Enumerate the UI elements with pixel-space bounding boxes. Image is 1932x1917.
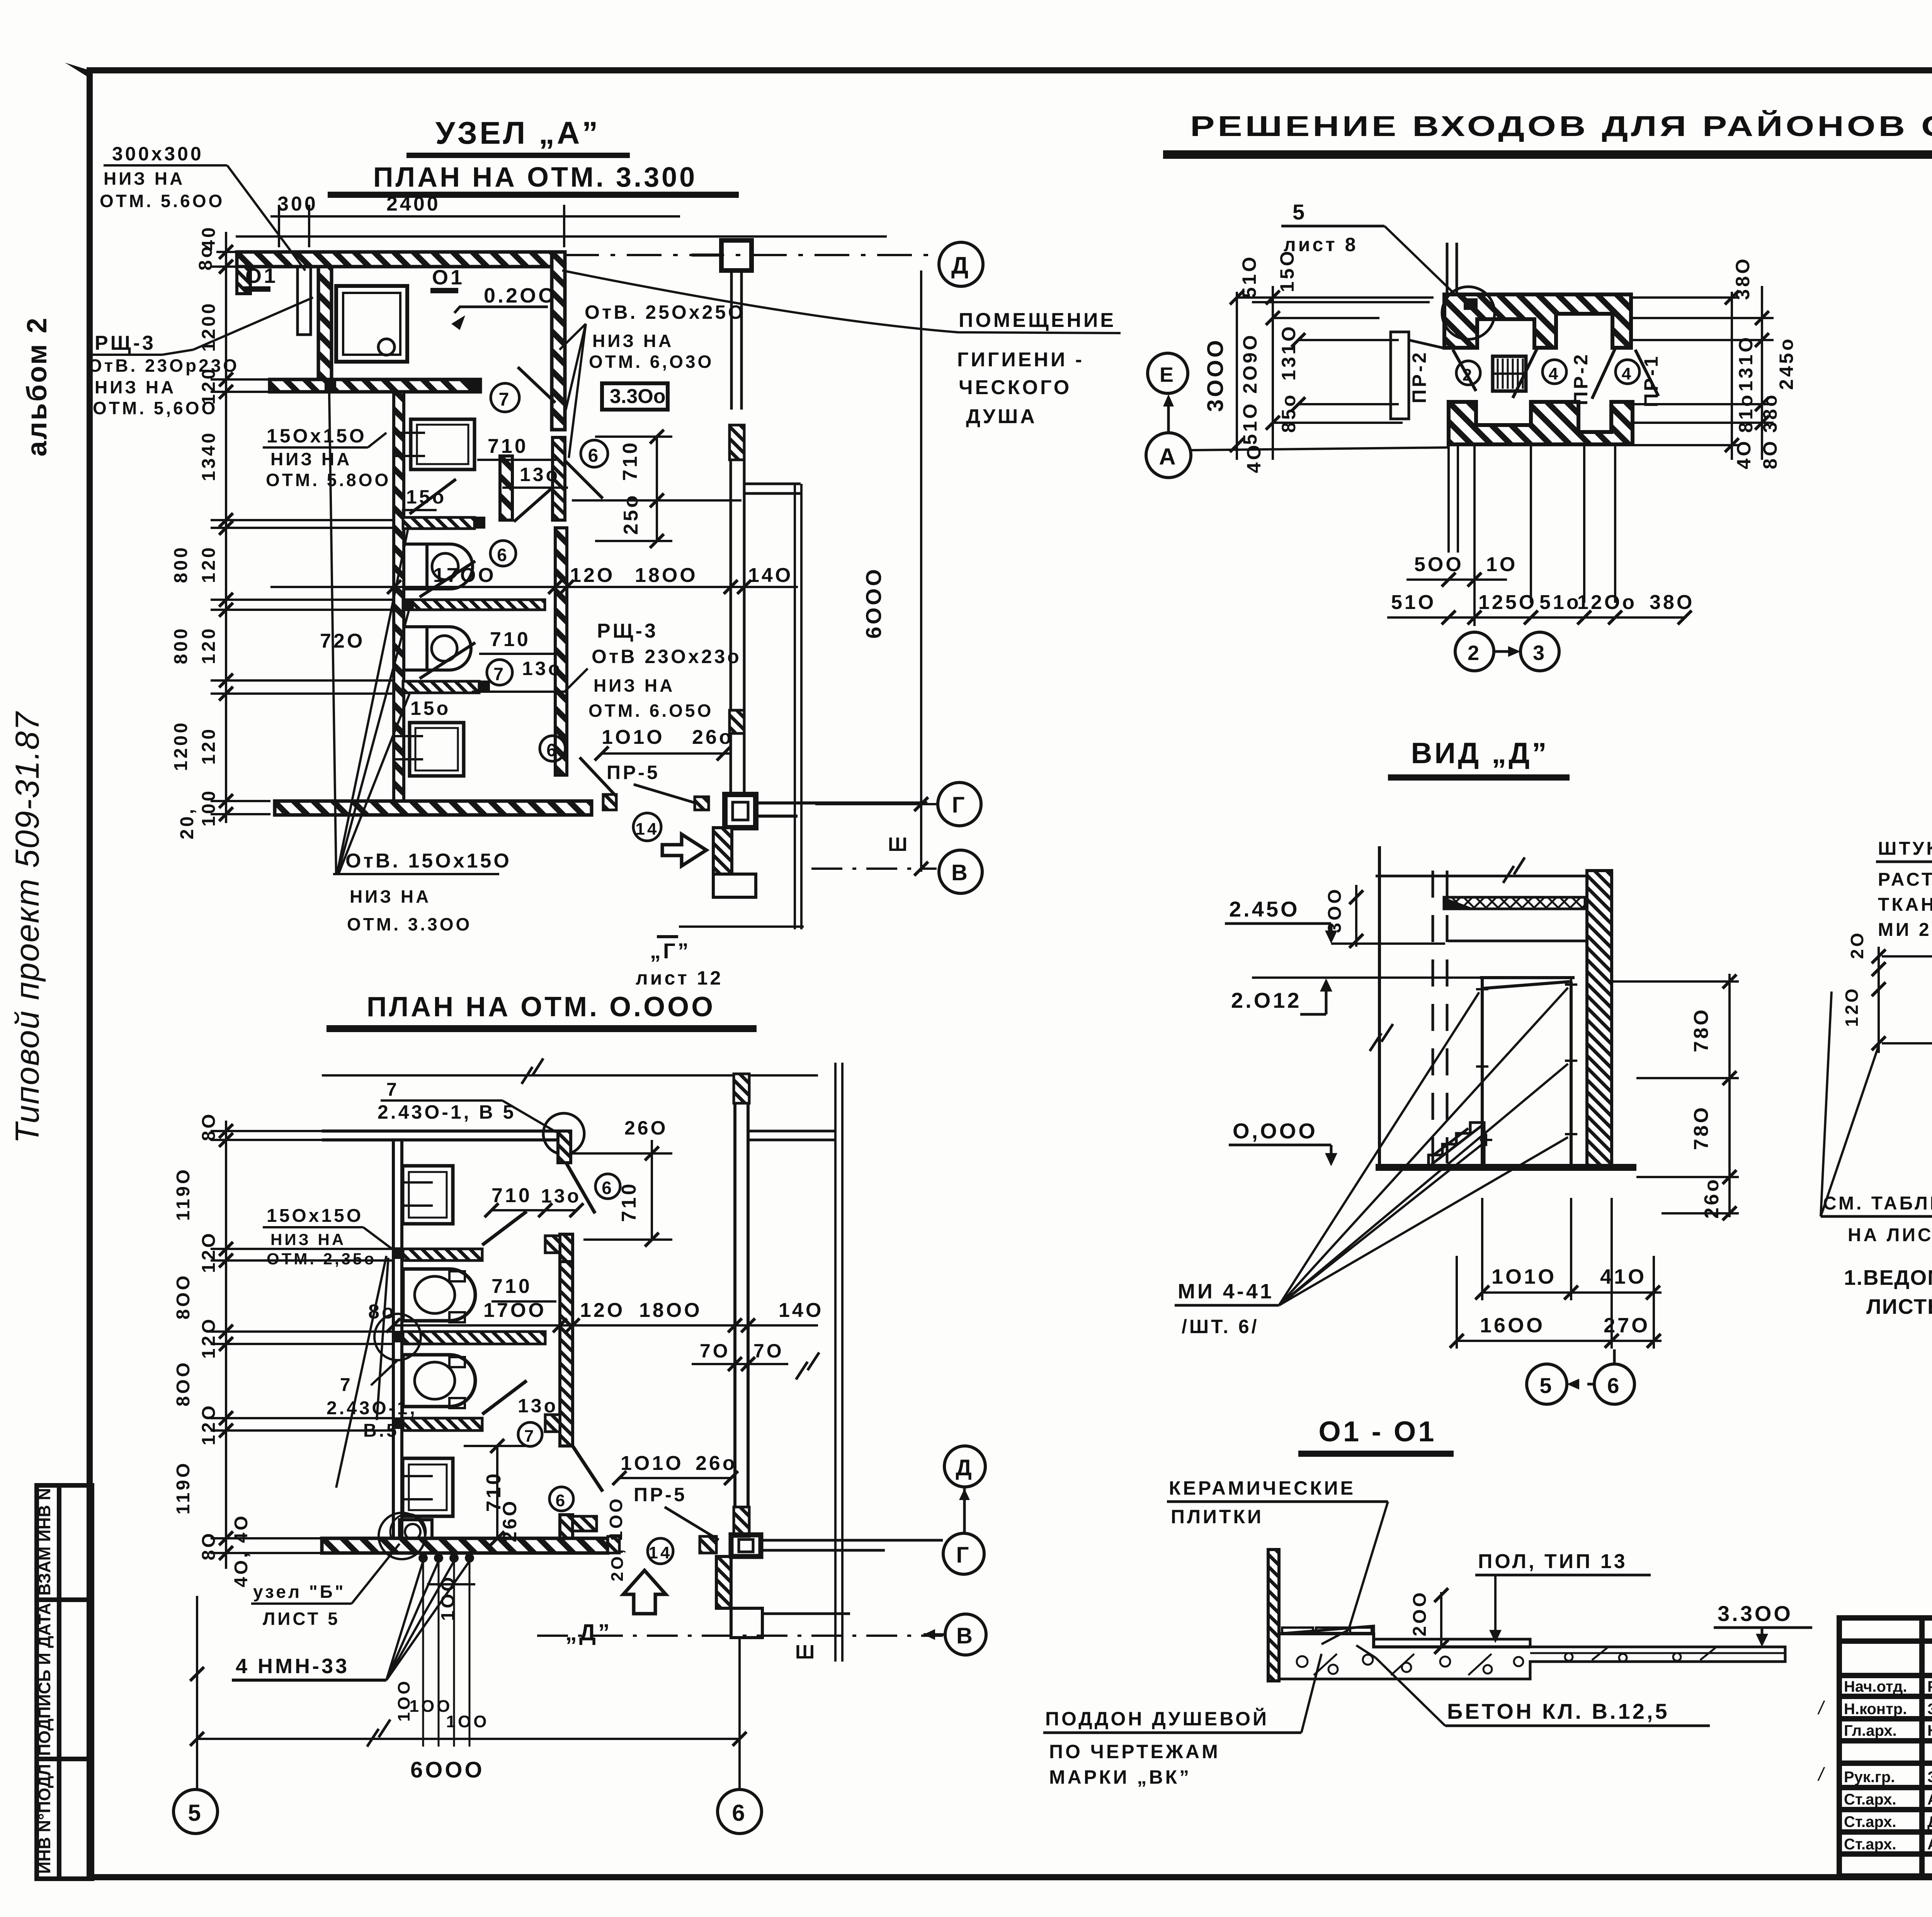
svg-text:710: 710 <box>488 435 528 458</box>
partition p3 <box>403 681 479 693</box>
svg-text:ЧЕСКОГО: ЧЕСКОГО <box>959 376 1071 399</box>
axis dash-dot V <box>537 1635 943 1637</box>
svg-text:узел "Б": узел "Б" <box>253 1582 346 1602</box>
svg-text:НИЗ НА: НИЗ НА <box>270 1230 346 1249</box>
svg-text:ТКАНОЙ СЕТКЕ С ЯЧЕЙКА-: ТКАНОЙ СЕТКЕ С ЯЧЕЙКА- <box>1878 894 1932 915</box>
svg-text:38О: 38О <box>1732 257 1753 300</box>
svg-text:СМ. ТАБЛИЦУ 2: СМ. ТАБЛИЦУ 2 <box>1823 1193 1932 1214</box>
svg-text:МИ 2Ох2Омм: МИ 2Ох2Омм <box>1878 920 1932 940</box>
svg-text:БЕТОН КЛ. В.12,5: БЕТОН КЛ. В.12,5 <box>1447 1699 1670 1723</box>
svg-text:ПР-2: ПР-2 <box>1408 350 1430 403</box>
svg-text:2.45О: 2.45О <box>1229 897 1300 921</box>
WC left wall <box>394 392 404 801</box>
svg-text:ГИГИЕНИ -: ГИГИЕНИ - <box>957 349 1084 371</box>
svg-text:7: 7 <box>340 1375 353 1395</box>
left wall door posts <box>392 1247 403 1259</box>
bottom band door post <box>603 794 616 810</box>
right outer thin wall (double line) <box>731 425 744 794</box>
top wall double line <box>322 1131 569 1140</box>
svg-text:1ОО: 1ОО <box>446 1712 489 1731</box>
svg-text:ИНВ N°ПОДЛ: ИНВ N°ПОДЛ <box>35 1764 54 1874</box>
toilet 2 <box>403 1355 475 1408</box>
svg-text:14О: 14О <box>779 1299 823 1322</box>
partition p1 <box>403 1249 482 1260</box>
svg-text:РЩ-3: РЩ-3 <box>95 332 156 354</box>
stamp signers column <box>1844 1678 1932 1853</box>
svg-text:ПЛАН НА ОТМ. 3.300: ПЛАН НА ОТМ. 3.300 <box>373 162 697 193</box>
leader text shtukaturka <box>1878 839 1932 940</box>
svg-text:ПР-5: ПР-5 <box>634 1484 687 1505</box>
right wall hatch top <box>734 1074 749 1103</box>
bottom wall band <box>1449 402 1633 444</box>
left wall <box>1268 1550 1279 1681</box>
door leaf PR-2 <box>1391 332 1446 419</box>
svg-text:13о: 13о <box>520 464 560 485</box>
svg-text:МАРКИ „ВК”: МАРКИ „ВК” <box>1049 1766 1191 1788</box>
svg-text:2: 2 <box>1468 641 1481 665</box>
duct niche 300x300 <box>298 267 311 335</box>
svg-text:14О: 14О <box>748 564 793 587</box>
svg-text:26О: 26О <box>499 1499 520 1543</box>
svg-text:12О: 12О <box>199 1231 219 1273</box>
svg-text:4О: 4О <box>1733 439 1755 469</box>
svg-text:0.2ОО: 0.2ОО <box>484 284 557 307</box>
svg-text:Д: Д <box>956 1455 974 1480</box>
svg-text:6: 6 <box>556 1491 567 1510</box>
column square top right <box>721 240 752 270</box>
svg-text:Рук.гр.: Рук.гр. <box>1844 1769 1895 1786</box>
svg-text:ПЛИТКИ: ПЛИТКИ <box>1171 1506 1264 1527</box>
svg-text:8ОО: 8ОО <box>173 1273 194 1319</box>
svg-text:ПОЛ, ТИП 13: ПОЛ, ТИП 13 <box>1478 1550 1628 1573</box>
leader POMESCHENIE DUSHA <box>562 270 1121 333</box>
svg-text:2400: 2400 <box>386 193 440 215</box>
title block stamp <box>1839 1618 1932 1876</box>
svg-text:120: 120 <box>199 727 219 765</box>
svg-text:НИЗ НА: НИЗ НА <box>594 675 675 696</box>
svg-text:„Г”: „Г” <box>650 939 691 963</box>
svg-text:41О: 41О <box>1600 1265 1646 1288</box>
svg-text:12О: 12О <box>570 564 615 587</box>
svg-text:26о: 26о <box>1701 1177 1723 1219</box>
dim chain verticals <box>1237 286 1434 460</box>
svg-text:38о: 38о <box>1759 393 1781 433</box>
svg-text:О,ООО: О,ООО <box>1233 1119 1318 1143</box>
svg-text:ОТМ. 3.3ОО: ОТМ. 3.3ОО <box>347 914 472 934</box>
svg-text:ОТМ. 6.О5О: ОТМ. 6.О5О <box>588 701 713 721</box>
svg-text:РЩ-3: РЩ-3 <box>597 620 658 642</box>
slab layers <box>1882 955 1932 958</box>
svg-text:18ОО: 18ОО <box>635 564 698 587</box>
3.300 boxed level <box>602 383 668 410</box>
svg-text:6: 6 <box>732 1800 747 1826</box>
svg-text:Типовой проект 509-31.87: Типовой проект 509-31.87 <box>9 711 46 1144</box>
svg-text:КЕРАМИЧЕСКИЕ: КЕРАМИЧЕСКИЕ <box>1169 1477 1355 1499</box>
bottom band <box>275 801 592 815</box>
svg-text:ДУША: ДУША <box>966 405 1037 428</box>
washstand device <box>400 1520 432 1544</box>
axis circle D <box>939 242 983 286</box>
svg-text:1340: 1340 <box>199 431 219 481</box>
svg-text:7: 7 <box>524 1427 536 1446</box>
svg-text:12О: 12О <box>199 1403 219 1446</box>
door opening frame <box>1480 978 1575 1167</box>
lintel band <box>1444 897 1585 909</box>
svg-text:5: 5 <box>1539 1373 1554 1398</box>
svg-text:ПР-1: ПР-1 <box>1640 354 1662 407</box>
circle 6 top <box>595 1174 620 1199</box>
top dim line <box>322 1074 818 1077</box>
axis line right (vertical double) <box>795 484 801 929</box>
svg-text:100: 100 <box>199 789 219 827</box>
svg-text:14: 14 <box>636 820 659 839</box>
svg-text:20,: 20, <box>177 807 197 840</box>
door circles <box>1456 361 1480 385</box>
mid wall lower (stalls right) <box>555 528 567 775</box>
svg-text:2О9О: 2О9О <box>1239 333 1261 393</box>
svg-text:Ш: Ш <box>795 1641 817 1663</box>
axis circle 6 <box>738 1638 741 1789</box>
svg-text:НИЗ НА: НИЗ НА <box>270 449 352 469</box>
svg-text:4О: 4О <box>1243 443 1265 473</box>
svg-text:ДЕЛОВА: ДЕЛОВА <box>1927 1813 1932 1830</box>
white block arrow <box>662 834 706 866</box>
svg-text:13о: 13о <box>518 1395 558 1417</box>
arrow E-A <box>1167 400 1170 432</box>
6000 dim vertical line <box>920 270 922 872</box>
concrete slab <box>1279 1626 1785 1679</box>
svg-text:МИ 4-41: МИ 4-41 <box>1178 1280 1274 1303</box>
svg-text:НЕМЦЕВ: НЕМЦЕВ <box>1927 1722 1932 1739</box>
shower tray <box>336 286 407 362</box>
title УЗЕЛ А <box>406 116 630 155</box>
svg-text:119О: 119О <box>173 1461 194 1515</box>
corridor top lines right <box>748 1130 835 1133</box>
sink 1 <box>403 1166 453 1224</box>
toilet 1 <box>403 1269 475 1322</box>
svg-text:ПЛАН НА ОТМ. О.ООО: ПЛАН НА ОТМ. О.ООО <box>367 992 715 1022</box>
svg-text:3.3Оо: 3.3Оо <box>610 385 666 408</box>
axis vertical line right <box>835 1063 842 1662</box>
title ПЛАН НА ОТМ. 3.300 <box>328 162 739 195</box>
svg-text:ОтВ. 15Ох15О: ОтВ. 15Ох15О <box>345 850 512 872</box>
svg-text:ОТМ. 5.6ОО: ОТМ. 5.6ОО <box>100 191 224 211</box>
left dim chain line <box>211 232 394 823</box>
svg-text:4О,: 4О, <box>231 1550 252 1587</box>
svg-text:ПОДДОН ДУШЕВОЙ: ПОДДОН ДУШЕВОЙ <box>1045 1708 1269 1730</box>
partition p3 <box>403 1418 482 1431</box>
title ВИД Д <box>1388 737 1570 777</box>
svg-text:26о: 26о <box>692 726 734 748</box>
svg-text:6: 6 <box>497 545 509 565</box>
svg-text:РАСТВОРОМ ПО СТАЛЬНОЙ: РАСТВОРОМ ПО СТАЛЬНОЙ <box>1878 869 1932 890</box>
descending extension lines <box>1449 444 1615 626</box>
axis circle A <box>1146 433 1191 478</box>
svg-text:51о: 51о <box>1539 591 1581 614</box>
svg-text:2ОО: 2ОО <box>1410 1590 1430 1636</box>
svg-text:15О: 15О <box>1276 249 1298 293</box>
svg-text:1О1О: 1О1О <box>602 726 665 748</box>
svg-text:15Ох15О: 15Ох15О <box>267 425 367 447</box>
svg-text:120: 120 <box>199 626 219 664</box>
svg-text:51О: 51О <box>1239 401 1261 445</box>
svg-text:3: 3 <box>1533 641 1547 665</box>
axis circle 5 <box>196 1596 198 1789</box>
svg-text:4 НМН-33: 4 НМН-33 <box>236 1655 349 1678</box>
svg-text:72О: 72О <box>320 630 365 652</box>
svg-text:6ООО: 6ООО <box>861 567 886 639</box>
svg-text:Ш: Ш <box>888 833 910 855</box>
svg-text:В.5: В.5 <box>363 1420 399 1441</box>
axis circles D G V right <box>944 1446 985 1487</box>
corner block <box>731 1535 761 1556</box>
bottom band <box>322 1538 608 1553</box>
door post squares on band <box>325 380 336 391</box>
corner column block <box>725 794 756 828</box>
svg-text:7: 7 <box>493 664 506 684</box>
svg-text:1200: 1200 <box>171 721 191 771</box>
svg-text:7: 7 <box>499 390 512 410</box>
svg-text:85о: 85о <box>1278 393 1299 433</box>
dim line 720/1700/120/1800/140 <box>270 586 798 588</box>
corner hatched L wall <box>713 828 732 874</box>
svg-text:7О: 7О <box>700 1340 730 1362</box>
svg-text:245о: 245о <box>1776 337 1797 390</box>
svg-text:12Оо: 12Оо <box>1577 591 1637 614</box>
svg-text:16ОО: 16ОО <box>1480 1314 1545 1337</box>
circles 5-6 upper <box>1527 1364 1567 1404</box>
svg-text:ЗИНЬКОВСКИЙ: ЗИНЬКОВСКИЙ <box>1927 1768 1932 1786</box>
left stamp strip <box>37 1485 92 1879</box>
svg-text:НА ЛИСТЕ 3: НА ЛИСТЕ 3 <box>1848 1225 1932 1245</box>
svg-text:2О,: 2О, <box>608 1547 627 1582</box>
column drop line <box>731 270 742 410</box>
circle 7 <box>518 1422 542 1446</box>
right upper wall <box>552 252 565 430</box>
svg-text:8ОО: 8ОО <box>173 1360 194 1406</box>
svg-text:1200: 1200 <box>199 301 219 352</box>
svg-text:5ОО: 5ОО <box>1414 553 1464 576</box>
toilet 1 <box>404 544 473 589</box>
svg-text:Гл.арх.: Гл.арх. <box>1844 1722 1897 1739</box>
rotated dim labels col1 <box>1238 249 1299 473</box>
svg-text:Н.контр.: Н.контр. <box>1844 1701 1907 1718</box>
svg-text:2О: 2О <box>1847 930 1867 959</box>
svg-text:А: А <box>1159 444 1178 469</box>
svg-text:АРХАНГЕЛЬСКАЯ: АРХАНГЕЛЬСКАЯ <box>1927 1791 1932 1808</box>
top wall band <box>1444 294 1631 348</box>
svg-text:О1: О1 <box>432 266 464 289</box>
circle 6 lower <box>549 1487 573 1511</box>
svg-text:НИЗ НА: НИЗ НА <box>95 377 176 397</box>
axis D dash-dot <box>564 254 932 256</box>
block arrow up <box>623 1570 666 1614</box>
svg-text:6ООО: 6ООО <box>410 1757 485 1783</box>
frame corner tick top-left <box>65 63 90 78</box>
svg-text:лист 12: лист 12 <box>636 967 723 989</box>
svg-text:6: 6 <box>546 740 559 760</box>
svg-text:38О: 38О <box>1650 591 1694 614</box>
svg-text:ОТМ. 2,35о: ОТМ. 2,35о <box>267 1250 376 1268</box>
title ПЛАН НА ОТМ. 0.000 <box>327 992 757 1029</box>
6000 dim line <box>197 1738 740 1740</box>
mid wall segments <box>560 1234 573 1262</box>
floor profile <box>1279 1634 1530 1647</box>
dims 510/1250/510/1200/380 <box>1391 591 1694 614</box>
svg-text:1.ВЕДОМОСТИ ПРОЕМОВ ДВЕРЕЙ: 1.ВЕДОМОСТИ ПРОЕМОВ ДВЕРЕЙ И ПЕРЕМЫЧЕК С… <box>1844 1265 1932 1289</box>
note text <box>1844 1265 1932 1318</box>
svg-text:14: 14 <box>649 1543 672 1562</box>
svg-text:800: 800 <box>171 626 191 664</box>
dashed door edge lines <box>1433 871 1447 1163</box>
svg-text:15о: 15о <box>410 697 451 719</box>
svg-text:18ОО: 18ОО <box>639 1299 702 1322</box>
svg-text:1ОО: 1ОО <box>606 1496 626 1541</box>
svg-text:4: 4 <box>1622 364 1633 383</box>
sink 1 <box>411 419 474 469</box>
svg-text:2.О12: 2.О12 <box>1231 988 1302 1012</box>
svg-text:Ст.арх.: Ст.арх. <box>1844 1813 1896 1830</box>
small post PR-5 <box>695 797 709 810</box>
left wall band upper <box>318 267 332 379</box>
axis circle E <box>1148 353 1188 393</box>
svg-text:78О: 78О <box>1690 1007 1713 1052</box>
sink 2 <box>410 723 464 776</box>
svg-text:ОтВ. 23Ор23О: ОтВ. 23Ор23О <box>88 356 239 376</box>
svg-text:НИЗ НА: НИЗ НА <box>592 331 673 351</box>
svg-text:131О: 131О <box>1278 324 1299 381</box>
door swing diagonals <box>1453 349 1658 399</box>
svg-text:1О1О: 1О1О <box>621 1452 684 1475</box>
svg-text:ОтВ 23Ох23о: ОтВ 23Ох23о <box>592 646 742 667</box>
svg-text:РАДЬКО: РАДЬКО <box>1927 1678 1932 1695</box>
svg-text:Е: Е <box>1160 363 1176 386</box>
svg-text:2.43О-1, В 5: 2.43О-1, В 5 <box>378 1101 516 1123</box>
room circles <box>491 383 519 412</box>
svg-text:125О: 125О <box>1478 591 1537 614</box>
svg-text:6: 6 <box>602 1178 614 1198</box>
door swing from post <box>566 1163 595 1213</box>
svg-text:2.43О-1,: 2.43О-1, <box>327 1398 417 1419</box>
svg-text:„Д”: „Д” <box>565 1619 612 1645</box>
door swings mid <box>482 1211 603 1492</box>
left wall double line <box>393 1140 402 1538</box>
svg-text:12О: 12О <box>1842 987 1862 1027</box>
svg-text:8о: 8о <box>196 244 216 270</box>
bottom corridor line <box>679 925 804 928</box>
top wall band <box>237 252 564 267</box>
window grate <box>1493 356 1526 391</box>
svg-text:/ШТ. 6/: /ШТ. 6/ <box>1182 1316 1259 1337</box>
right stub wall <box>744 484 801 493</box>
svg-text:7: 7 <box>386 1080 399 1100</box>
svg-text:17ОО: 17ОО <box>433 564 496 587</box>
svg-text:ПР-5: ПР-5 <box>607 762 660 783</box>
svg-text:15о: 15о <box>406 486 446 508</box>
toilet 2 <box>404 627 471 670</box>
right dim chains <box>1633 286 1774 460</box>
left dim chain ticks <box>219 245 233 821</box>
svg-text:Г: Г <box>952 793 967 818</box>
aggregate speckles <box>1297 1648 1716 1675</box>
svg-text:В: В <box>956 1623 975 1648</box>
svg-text:О1: О1 <box>245 264 278 287</box>
svg-text:ОТМ. 6,О3О: ОТМ. 6,О3О <box>589 352 714 372</box>
svg-text:УЗЕЛ „А”: УЗЕЛ „А” <box>435 116 600 151</box>
svg-text:НИЗ НА: НИЗ НА <box>104 168 185 189</box>
svg-text:2: 2 <box>1463 366 1474 384</box>
svg-text:Нач.отд.: Нач.отд. <box>1844 1678 1907 1695</box>
svg-text:О1 - О1: О1 - О1 <box>1318 1415 1436 1448</box>
axis V dash-dot <box>811 867 937 870</box>
svg-text:300: 300 <box>277 193 318 215</box>
svg-text:ПР-2: ПР-2 <box>1570 352 1592 405</box>
svg-text:26О: 26О <box>624 1117 668 1139</box>
partition p2 <box>403 1332 545 1344</box>
floor thick line <box>1376 1164 1636 1171</box>
axis circle V <box>939 850 982 893</box>
circle 14 <box>648 1538 673 1564</box>
svg-text:81о: 81о <box>1735 393 1757 433</box>
svg-text:Д: Д <box>951 252 971 279</box>
svg-text:710: 710 <box>619 441 641 481</box>
top line with break <box>1376 875 1587 878</box>
svg-text:ВИД „Д”: ВИД „Д” <box>1411 737 1549 770</box>
left wall line <box>1378 846 1381 1167</box>
axis circles 2-3 <box>1455 632 1494 671</box>
svg-text:8О: 8О <box>199 1531 219 1560</box>
sink 2 <box>403 1458 453 1516</box>
svg-text:альбом 2: альбом 2 <box>22 316 53 457</box>
svg-text:13о: 13о <box>522 658 562 679</box>
svg-text:1О: 1О <box>1486 553 1517 576</box>
svg-text:ОТМ. 5.8ОО: ОТМ. 5.8ОО <box>266 470 391 490</box>
svg-text:51О: 51О <box>1391 591 1436 614</box>
svg-text:119О: 119О <box>173 1167 194 1221</box>
stairs bottom <box>1429 1123 1484 1167</box>
mid wall upper (sink stall right) <box>500 456 512 520</box>
partition p2 <box>403 600 545 610</box>
left dim chain <box>211 1121 393 1569</box>
break mark right <box>796 1352 819 1379</box>
corner hatched wall below <box>716 1556 731 1608</box>
axis A line <box>1191 447 1449 450</box>
svg-text:13о: 13о <box>541 1185 581 1207</box>
svg-text:АРХАНГЕЛЬСКАЯ: АРХАНГЕЛЬСКАЯ <box>1927 1836 1932 1853</box>
axis G line <box>815 803 937 805</box>
right hatched wall <box>1587 871 1612 1167</box>
svg-text:1О1О: 1О1О <box>1492 1265 1556 1288</box>
title РЕШЕНИЕ ВХОДОВ <box>1163 104 1932 161</box>
anchor cross marks <box>1476 978 1577 1146</box>
svg-text:ВЗАМ ИНВ N: ВЗАМ ИНВ N <box>35 1488 54 1596</box>
corner detail circle <box>1442 287 1495 339</box>
svg-text:800: 800 <box>171 545 191 583</box>
svg-text:710: 710 <box>492 1275 532 1298</box>
svg-text:В: В <box>951 860 970 885</box>
svg-text:ПО ЧЕРТЕЖАМ: ПО ЧЕРТЕЖАМ <box>1049 1741 1220 1762</box>
svg-text:12О: 12О <box>199 1317 219 1359</box>
svg-text:12О: 12О <box>580 1299 625 1322</box>
door swing diagonals <box>410 367 617 797</box>
corner circle detail <box>543 1113 584 1154</box>
svg-text:3ОО: 3ОО <box>1325 887 1345 933</box>
right dim chain <box>1612 974 1739 1217</box>
bottom 100s dims <box>395 1679 489 1731</box>
svg-text:ШТУКАТУРКА ЦЕМЕНТНЫМ: ШТУКАТУРКА ЦЕМЕНТНЫМ <box>1878 839 1932 859</box>
svg-text:ЗИНЬКОВСКИЙ: ЗИНЬКОВСКИЙ <box>1927 1700 1932 1718</box>
svg-text:300х300: 300х300 <box>112 143 204 165</box>
